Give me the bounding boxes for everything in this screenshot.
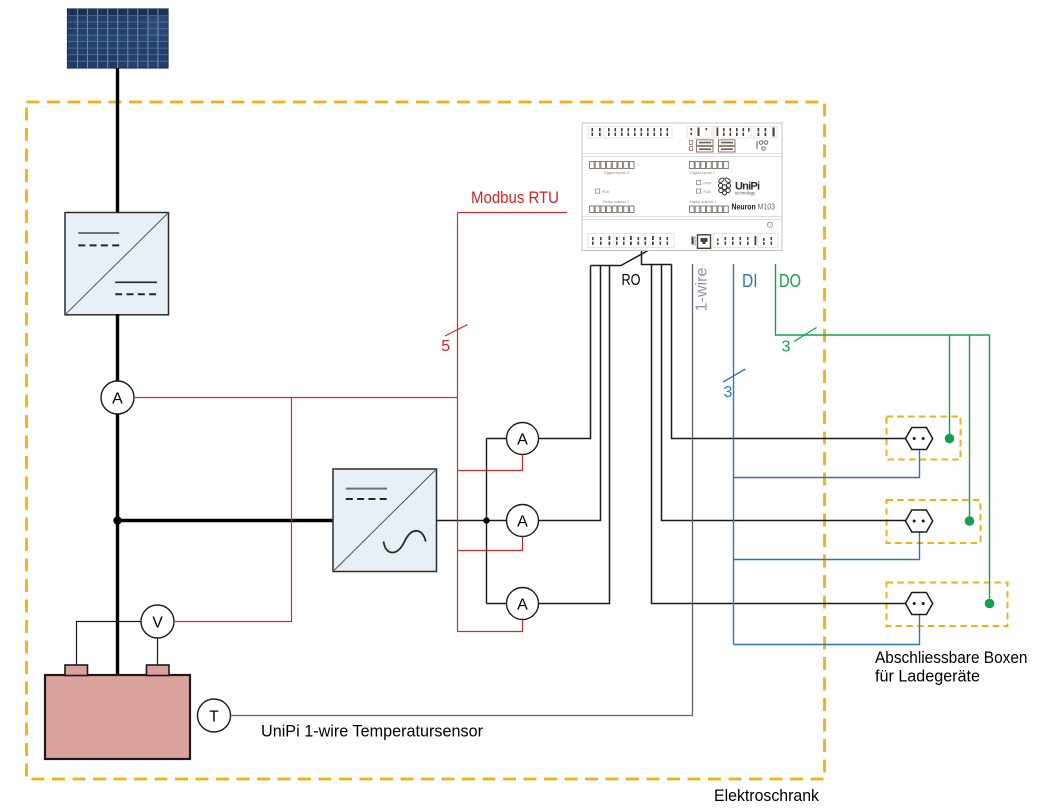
- svg-text:Elektroschrank: Elektroschrank: [714, 786, 819, 805]
- svg-text:DO: DO: [779, 271, 801, 291]
- wire RO left bus: [591, 251, 649, 266]
- wire RO right bus: [642, 251, 672, 265]
- wire inverter to ammeter A2: [437, 520, 508, 522]
- wire RO to socket 2: [662, 265, 907, 521]
- svg-text:Digital inputs 1: Digital inputs 1: [690, 171, 715, 175]
- wire red voltmeter branch: [174, 398, 292, 622]
- LED indicator 1: [945, 434, 955, 444]
- PLC digital inputs 1 terminals: [690, 162, 729, 169]
- inverter U2 DC/AC: [333, 469, 437, 572]
- socket X2: [906, 510, 933, 532]
- svg-text:technology: technology: [735, 191, 756, 196]
- wire A3 to relay output RO: [539, 266, 610, 604]
- PLC digital inputs 2 terminals: [590, 162, 635, 169]
- wire DC bus to inverter: [118, 519, 334, 522]
- svg-text:A: A: [517, 596, 528, 613]
- PLC tiny labels: [603, 171, 717, 204]
- wire panel to converter: [116, 68, 119, 213]
- PLC USB slots: [690, 140, 768, 152]
- svg-text:A: A: [112, 390, 123, 407]
- svg-text:RUN: RUN: [704, 190, 712, 194]
- ammeter A3: [507, 588, 539, 620]
- svg-text:T: T: [209, 708, 219, 725]
- node junction AC: [483, 517, 489, 523]
- LED indicator 3: [985, 599, 995, 609]
- svg-text:5: 5: [441, 338, 450, 355]
- wire voltmeter to battery right terminal: [157, 638, 159, 665]
- wire DI branch socket 1: [734, 450, 920, 478]
- PLC digital outputs 1 terminals: [690, 206, 729, 213]
- wire DO green bus: [776, 264, 991, 335]
- lockable box 1 dashed: [887, 417, 961, 460]
- wire DO drop LED2: [969, 335, 971, 517]
- svg-text:für Ladegeräte: für Ladegeräte: [875, 668, 980, 686]
- svg-text:1-Wire: 1-Wire: [693, 236, 697, 246]
- battery B1: [45, 665, 190, 759]
- wire red branch A3: [458, 620, 523, 632]
- lockable box 2 dashed: [887, 500, 981, 543]
- PLC pin marks: [592, 128, 775, 137]
- wire A1 to relay output RO: [539, 266, 591, 439]
- svg-text:Abschliessbare Boxen: Abschliessbare Boxen: [875, 649, 1028, 667]
- solar panel PV1: [68, 9, 169, 68]
- PLC top terminal pins row: [588, 127, 777, 139]
- LED indicator 2: [965, 516, 975, 526]
- label Abschliessbare Boxen fuer Ladegeraete: [875, 649, 1028, 686]
- wire ammeter A to battery: [116, 414, 119, 676]
- svg-text:Relay outputs 2: Relay outputs 2: [603, 200, 629, 204]
- PLC bottom pin marks: [592, 236, 772, 245]
- wire DI branch socket 2: [734, 532, 920, 560]
- svg-text:RUN: RUN: [602, 190, 610, 194]
- PLC bottom terminal pins row: [588, 234, 778, 248]
- svg-text:3: 3: [782, 339, 791, 356]
- lockable box 3 dashed: [887, 583, 1008, 627]
- svg-text:V: V: [152, 614, 163, 631]
- wire AC bus vertical: [486, 439, 488, 604]
- svg-text:PWR: PWR: [704, 181, 712, 185]
- svg-text:Modbus RTU: Modbus RTU: [471, 188, 559, 207]
- ammeter A1: [507, 423, 539, 455]
- svg-text:Digital outputs 1: Digital outputs 1: [690, 200, 717, 204]
- svg-text:3: 3: [724, 384, 733, 401]
- svg-text:Digital inputs 2: Digital inputs 2: [604, 171, 629, 175]
- bus count marker 3 green: [782, 328, 817, 356]
- PLC run checkboxes: [596, 181, 701, 194]
- wire DI blue bus: [733, 264, 735, 645]
- ammeter A main: [101, 381, 134, 414]
- wire RO to socket 3: [652, 265, 907, 604]
- ammeter A2: [507, 505, 539, 537]
- wire A2 to relay output RO: [539, 266, 601, 521]
- svg-text:RO: RO: [622, 272, 641, 289]
- PLC reset circle icon: [767, 222, 772, 227]
- svg-text:A: A: [517, 513, 528, 530]
- bus count marker 3 blue: [723, 369, 746, 401]
- wire converter to ammeter A: [116, 314, 119, 382]
- wire AC bus to A1: [487, 438, 508, 440]
- wire red modbus bus vertical: [457, 213, 459, 632]
- converter U1 DC/DC: [65, 213, 169, 315]
- socket X3: [906, 593, 933, 615]
- temperature sensor T: [198, 699, 231, 732]
- wire battery left terminal to voltmeter: [77, 622, 142, 666]
- PLC U3 UniPi Neuron M103: [582, 123, 782, 251]
- wire red branch A1: [458, 455, 523, 471]
- bus count marker 5: [441, 325, 467, 355]
- svg-text:UniPi 1-wire Temperatursensor: UniPi 1-wire Temperatursensor: [261, 723, 483, 741]
- wire AC bus to A3: [487, 603, 508, 605]
- wire red branch A2: [458, 537, 523, 551]
- wire red modbus to PLC: [458, 212, 568, 214]
- enclosure Elektroschrank dashed border: [27, 102, 825, 779]
- svg-text:A: A: [517, 431, 528, 448]
- wire DI branch socket 3: [734, 615, 920, 645]
- wire RO to socket 1: [672, 265, 907, 439]
- wire DO drop LED3: [989, 335, 991, 599]
- wire red A main to modbus bus: [134, 397, 458, 399]
- svg-text:DI: DI: [742, 271, 758, 291]
- wire 1-wire sensor line: [231, 264, 693, 716]
- voltmeter V: [141, 605, 174, 638]
- PLC 1-wire RJ45 port: [693, 235, 711, 249]
- svg-text:1-wire: 1-wire: [694, 268, 711, 312]
- PLC relay outputs 2 terminals: [590, 206, 635, 213]
- socket X1: [906, 428, 933, 450]
- svg-text:Neuron M103: Neuron M103: [732, 203, 776, 212]
- PLC raspberry logo: [718, 177, 731, 195]
- wire DO drop LED1: [949, 335, 951, 434]
- node junction DC bus: [113, 516, 121, 524]
